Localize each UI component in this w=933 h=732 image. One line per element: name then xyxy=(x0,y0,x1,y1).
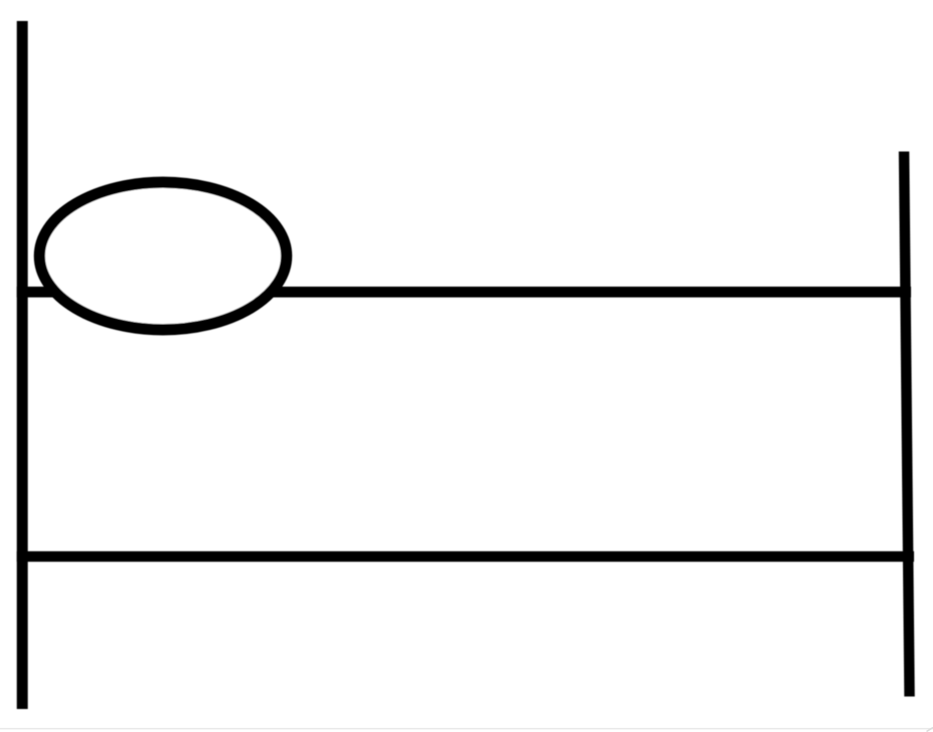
wire top rail xyxy=(17,287,911,298)
corner tick xyxy=(927,728,933,732)
wire left bed post xyxy=(17,21,28,709)
pillow ellipse xyxy=(40,182,287,329)
wire right bed post xyxy=(904,152,910,697)
wire bottom rail xyxy=(17,551,914,562)
baseline shadow xyxy=(0,728,933,730)
